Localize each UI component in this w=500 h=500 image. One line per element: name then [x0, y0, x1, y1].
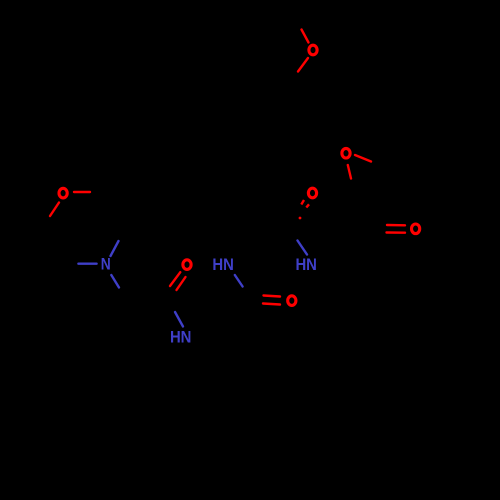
bond C=O amide2 top line (red half)	[264, 296, 281, 297]
svg-text:HN: HN	[170, 329, 192, 347]
bond N-C morpholine up-right (blue half)	[111, 241, 119, 256]
bond N-CH2 exocyclic down-right (blue half)	[111, 275, 119, 288]
bond N-C amide2 (blue half)	[235, 275, 243, 287]
atom O amide1 carbonyl	[183, 260, 191, 270]
atom O ketone	[412, 224, 420, 234]
atom O morpholine	[59, 188, 67, 198]
svg-text:HN: HN	[295, 256, 317, 274]
svg-text:N: N	[101, 256, 111, 274]
bond C=O amide3 frag b	[306, 204, 309, 207]
bond C=O amide2 bottom line (red half)	[263, 304, 280, 305]
bond O-C down (red half)	[348, 165, 351, 179]
bond O-aryl methoxy (red half)	[298, 58, 308, 72]
bond C=O amide3 frag a	[301, 200, 304, 205]
bond C=O amide3 frag c	[299, 217, 302, 220]
bond N-C amide3 (blue half)	[298, 241, 308, 255]
bond CH3-O methoxy (red half)	[302, 30, 309, 43]
atom O ring ether	[342, 148, 350, 158]
bond O-C morpholine right (red half)	[74, 191, 90, 193]
atom O amide3 carbonyl	[308, 188, 316, 198]
bond C=O ketone top line (red half)	[387, 224, 405, 227]
bond C=O amide1 outer line (red half)	[170, 272, 180, 286]
svg-text:HN: HN	[212, 256, 234, 274]
bond N-C morpholine left (blue half)	[78, 263, 96, 265]
bond O-C morpholine down-left (red half)	[50, 203, 59, 217]
atom O amide2 carbonyl	[288, 296, 296, 306]
atom O methoxy	[309, 45, 317, 55]
bond C=O amide1 inner line (red half)	[177, 277, 186, 290]
bond O-C right (red half)	[355, 155, 371, 162]
bond C-N amide1 (blue half)	[175, 312, 183, 327]
bond C=O ketone bottom line (red half)	[387, 231, 406, 234]
